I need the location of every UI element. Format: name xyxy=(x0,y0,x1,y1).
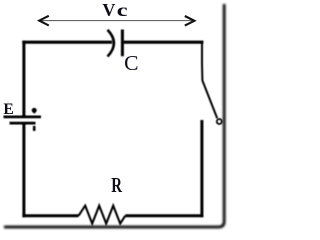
battery E bottom plate (short) xyxy=(10,122,36,125)
capacitor C curved plate xyxy=(108,30,114,57)
battery EMF tail dash mark xyxy=(33,126,36,131)
Vc measurement arrow line xyxy=(41,20,193,22)
switch S1 lever xyxy=(202,81,217,119)
wire right upper stub (top corner down to switch pivot) xyxy=(201,41,203,81)
svg-text:V: V xyxy=(102,0,115,20)
Vc arrow right head xyxy=(185,16,195,26)
Vc arrow left head xyxy=(39,16,49,26)
wire left lower (battery to bottom corner) xyxy=(22,124,25,217)
svg-text:c: c xyxy=(117,0,128,20)
svg-text:R: R xyxy=(111,173,122,197)
switch S1 terminal circle xyxy=(217,119,222,124)
svg-text:C: C xyxy=(124,51,138,75)
wire right lower (switch contact to bottom corner) xyxy=(200,120,203,217)
frame border (image drop shadow, right+bottom) xyxy=(4,4,224,227)
capacitor C straight plate xyxy=(121,30,124,57)
svg-text:E: E xyxy=(3,101,13,118)
resistor R1 zigzag xyxy=(79,206,126,224)
wire top-right segment xyxy=(124,41,204,44)
battery E top plate (long) xyxy=(4,116,42,119)
battery EMF arrowhead mark xyxy=(32,108,37,113)
wire bottom-left segment xyxy=(22,214,78,217)
wire bottom-right segment xyxy=(125,214,203,217)
wire top-left segment xyxy=(22,41,112,44)
wire left upper (top corner to battery) xyxy=(22,41,25,116)
